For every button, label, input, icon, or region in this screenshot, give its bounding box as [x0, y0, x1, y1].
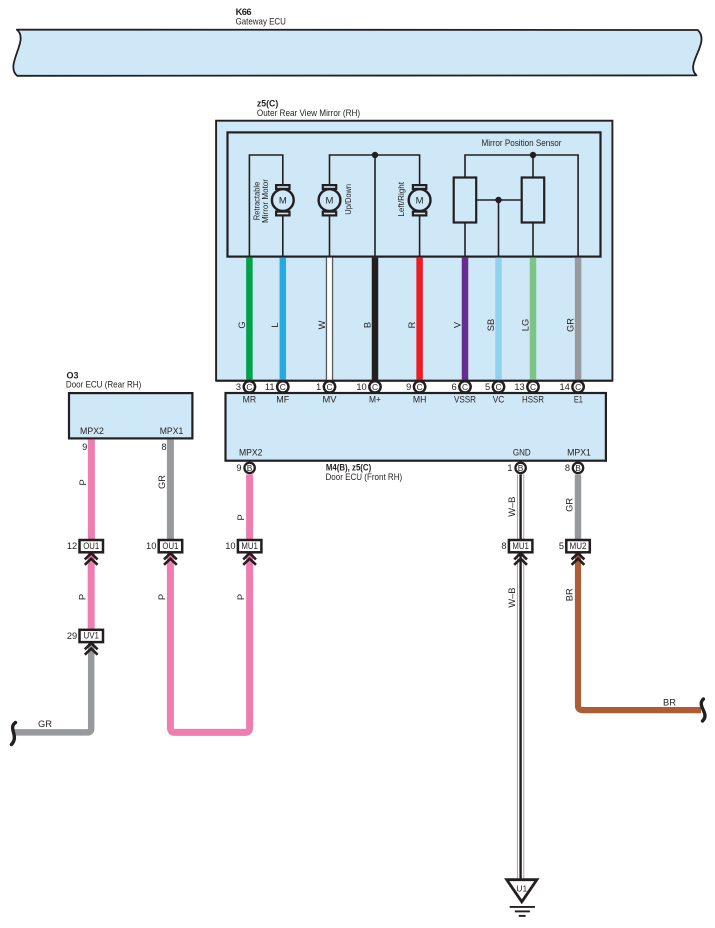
pin 3 connector C — [236, 381, 255, 392]
pin 10 connector C — [356, 381, 380, 392]
svg-text:C: C — [326, 382, 332, 392]
wire W-B GND pin down to MU1 — [517, 474, 524, 540]
wire motor1 bottom — [282, 216, 284, 256]
pin 11 connector C — [265, 381, 289, 392]
svg-text:W: W — [317, 320, 327, 329]
svg-text:GR: GR — [566, 318, 576, 332]
wire P pink front MPX2 pin down — [246, 474, 253, 540]
svg-text:12: 12 — [67, 541, 77, 551]
wire M+ junction down — [374, 155, 376, 257]
svg-text:VSSR: VSSR — [454, 395, 476, 405]
svg-text:8: 8 — [501, 541, 506, 551]
svg-text:BR: BR — [663, 698, 676, 708]
svg-text:9: 9 — [406, 382, 411, 392]
svg-text:Mirror Position Sensor: Mirror Position Sensor — [482, 138, 562, 148]
svg-text:Left/Right: Left/Right — [397, 181, 406, 216]
wire SB sky blue — [495, 258, 502, 381]
svg-text:G: G — [237, 321, 247, 328]
mirror assembly outer box z5(C) — [216, 121, 612, 381]
svg-text:M4(B), z5(C): M4(B), z5(C) — [326, 463, 371, 473]
wire motor2 bottom — [329, 216, 331, 256]
wire motor3 bottom — [419, 216, 421, 256]
svg-text:9: 9 — [236, 463, 241, 473]
svg-text:W–B: W–B — [507, 588, 517, 608]
svg-text:B: B — [518, 463, 524, 473]
svg-text:HSSR: HSSR — [522, 395, 544, 405]
chevrons below MU1 8 — [514, 553, 527, 565]
svg-text:MPX1: MPX1 — [567, 448, 591, 458]
svg-text:C: C — [575, 382, 581, 392]
ECU O3 Door ECU Rear RH box — [69, 393, 192, 438]
pin 5 connector C — [485, 381, 504, 392]
svg-text:V: V — [452, 321, 462, 328]
svg-text:Door ECU (Front RH): Door ECU (Front RH) — [326, 472, 403, 482]
svg-text:MU1: MU1 — [241, 541, 258, 551]
svg-text:VC: VC — [493, 395, 505, 405]
svg-text:13: 13 — [514, 382, 524, 392]
svg-text:U1: U1 — [516, 884, 527, 894]
svg-text:OU1: OU1 — [162, 541, 178, 551]
torn end squiggle right — [701, 699, 705, 721]
svg-text:10: 10 — [146, 541, 156, 551]
pin 14 connector C — [559, 381, 583, 392]
svg-text:P: P — [236, 594, 246, 600]
svg-text:M: M — [326, 196, 334, 207]
wire sensor middle down — [498, 200, 500, 257]
pin 13 connector C — [514, 381, 538, 392]
svg-text:B: B — [362, 322, 372, 328]
svg-text:6: 6 — [452, 382, 457, 392]
connector 8 MU1 — [501, 540, 532, 552]
wire sensor left bottom — [464, 223, 466, 257]
svg-text:P: P — [157, 594, 167, 600]
wire G green — [246, 258, 253, 381]
svg-text:3: 3 — [236, 382, 241, 392]
wire LG light green — [530, 258, 537, 381]
svg-text:P: P — [236, 514, 246, 520]
svg-text:K66: K66 — [236, 7, 252, 17]
connector 12 OU1 — [67, 540, 103, 552]
pin 1 connector B GND — [507, 463, 525, 473]
ground hatch — [510, 907, 535, 916]
pin 8 connector B front MPX1 — [565, 463, 583, 473]
wire motor2 motor3 top bar — [330, 155, 420, 184]
pin 9 connector C — [406, 381, 425, 392]
svg-text:GND: GND — [513, 448, 531, 458]
svg-text:MPX2: MPX2 — [239, 448, 263, 458]
svg-text:9: 9 — [82, 442, 87, 452]
wire P pink below OU1 12 — [88, 553, 95, 630]
svg-text:5: 5 — [559, 541, 564, 551]
chevrons below MU2 5 — [572, 553, 585, 565]
label M4(B), z5(C) Door ECU (Front RH) — [326, 463, 403, 483]
svg-text:Up/Down: Up/Down — [344, 184, 353, 215]
svg-text:M: M — [416, 196, 424, 207]
svg-text:C: C — [280, 382, 286, 392]
mirror outer box bottom edge — [216, 380, 612, 382]
wire GR gray front MPX1 pin down to MU2 — [575, 474, 582, 540]
svg-text:8: 8 — [161, 442, 166, 452]
svg-text:L: L — [270, 322, 280, 327]
svg-text:C: C — [462, 382, 468, 392]
svg-text:GR: GR — [564, 498, 574, 512]
ground U1 triangle — [507, 880, 537, 902]
svg-text:E1: E1 — [574, 395, 583, 405]
svg-text:MPX2: MPX2 — [80, 426, 104, 436]
svg-text:RetractableMirror Motor: RetractableMirror Motor — [253, 179, 270, 223]
svg-text:MV: MV — [323, 395, 338, 405]
connector 10 OU1 — [146, 540, 182, 552]
wire V violet — [462, 258, 469, 381]
svg-text:P: P — [78, 479, 88, 485]
svg-text:11: 11 — [265, 382, 275, 392]
connector 5 MU2 — [559, 540, 590, 552]
connector 10 MU1 — [225, 540, 261, 552]
svg-text:LG: LG — [520, 319, 530, 331]
chevrons below MU1 10 — [243, 553, 256, 565]
svg-text:1: 1 — [507, 463, 512, 473]
chevrons below OU1 12 — [85, 553, 98, 565]
svg-text:GR: GR — [38, 719, 52, 729]
wire R red — [416, 258, 423, 381]
mirror inner component box — [228, 132, 601, 256]
svg-text:P: P — [78, 594, 88, 600]
motor M up/down — [319, 185, 341, 215]
svg-text:8: 8 — [565, 463, 570, 473]
svg-text:W–B: W–B — [507, 497, 517, 517]
svg-text:SB: SB — [486, 319, 496, 331]
wire BR brown below MU2 to torn end — [578, 553, 701, 711]
svg-text:GR: GR — [157, 475, 167, 489]
svg-text:UV1: UV1 — [83, 631, 99, 641]
svg-text:B: B — [247, 463, 253, 473]
node junction M+ — [372, 152, 378, 158]
motor M left/right — [409, 185, 431, 215]
chevrons below OU1 10 — [164, 553, 177, 565]
wire W-B below MU1 to ground — [517, 553, 524, 880]
ECU K66 gateway band — [13, 30, 701, 76]
wire W white — [326, 258, 333, 381]
motor M retractable — [272, 185, 294, 215]
wire B black — [372, 258, 379, 381]
wire sensor middle bar — [476, 199, 522, 201]
wire GR gray below UV1 to torn end — [14, 642, 91, 732]
svg-text:OU1: OU1 — [83, 541, 99, 551]
label K66 Gateway ECU — [236, 7, 286, 27]
svg-text:C: C — [495, 382, 501, 392]
wire P pink U shape — [170, 553, 249, 733]
svg-text:C: C — [246, 382, 252, 392]
svg-text:B: B — [575, 463, 581, 473]
wire P pink rear MPX2 down — [88, 439, 95, 540]
svg-text:z5(C): z5(C) — [257, 99, 278, 109]
svg-text:M: M — [279, 196, 287, 207]
svg-text:MR: MR — [243, 395, 257, 405]
wire sensor right bottom — [532, 223, 534, 257]
ECU M4(B) z5(C) Door ECU Front RH box — [226, 393, 606, 461]
svg-text:29: 29 — [67, 631, 77, 641]
label z5(C) Outer Rear View Mirror (RH) — [257, 99, 360, 119]
wire GR gray rear MPX1 down — [167, 439, 174, 540]
node sensor top junction — [530, 152, 536, 158]
svg-text:MU2: MU2 — [570, 541, 587, 551]
svg-text:Outer Rear View Mirror (RH): Outer Rear View Mirror (RH) — [257, 108, 360, 118]
svg-text:Gateway ECU: Gateway ECU — [236, 17, 286, 27]
pin 9 connector B front MPX2 — [236, 463, 254, 473]
svg-text:10: 10 — [356, 382, 366, 392]
svg-text:BR: BR — [564, 588, 574, 601]
svg-text:C: C — [417, 382, 423, 392]
wire L blue — [280, 258, 287, 381]
chevrons below UV1 29 — [85, 643, 98, 655]
pin 6 connector C — [452, 381, 471, 392]
node sensor middle junction — [495, 197, 501, 203]
svg-text:MU1: MU1 — [512, 541, 529, 551]
wire sensor top bar — [465, 155, 578, 257]
wire motor1 top bracket — [249, 155, 282, 257]
svg-text:MF: MF — [276, 395, 289, 405]
svg-text:Door ECU (Rear RH): Door ECU (Rear RH) — [66, 380, 141, 390]
wire GR gray — [575, 258, 582, 381]
svg-text:M+: M+ — [369, 395, 381, 405]
svg-text:MH: MH — [413, 395, 427, 405]
svg-text:1: 1 — [316, 382, 321, 392]
sensor resistor left — [454, 178, 477, 223]
label O3 Door ECU (Rear RH) — [66, 370, 141, 389]
torn end squiggle left — [12, 723, 16, 745]
svg-text:MPX1: MPX1 — [160, 426, 184, 436]
connector 29 UV1 — [67, 630, 103, 642]
svg-text:10: 10 — [225, 541, 235, 551]
svg-text:C: C — [530, 382, 536, 392]
wire sensor top junction down — [532, 155, 534, 178]
svg-text:14: 14 — [559, 382, 569, 392]
svg-text:R: R — [407, 321, 417, 328]
svg-text:C: C — [372, 382, 378, 392]
svg-text:5: 5 — [485, 382, 490, 392]
sensor resistor right — [522, 178, 545, 223]
pin 1 connector C — [316, 381, 335, 392]
